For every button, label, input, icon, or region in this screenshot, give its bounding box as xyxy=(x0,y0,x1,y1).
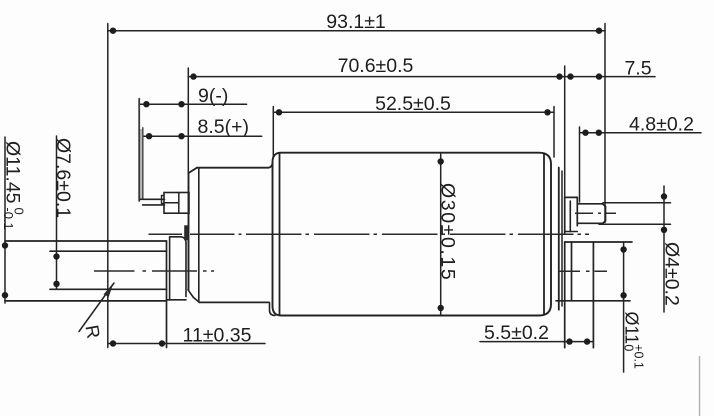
centerline main axis xyxy=(149,233,590,235)
svg-text:Ø7.6±0.1: Ø7.6±0.1 xyxy=(52,138,74,218)
wire dimension line 5.5 xyxy=(480,341,593,343)
terminal block horizontal divider xyxy=(164,202,179,204)
outlet tube bottom xyxy=(577,222,602,224)
dot 93.1 left xyxy=(110,28,116,34)
wire inlet bore top line xyxy=(50,250,167,252)
wire extension line right 93.1 xyxy=(604,24,606,223)
centerline port axis xyxy=(559,270,607,272)
svg-text:93.1±1: 93.1±1 xyxy=(326,11,386,33)
outlet base block bottom xyxy=(565,231,578,233)
inlet neck top edge xyxy=(170,237,186,243)
pump body right cover inner line xyxy=(561,171,563,306)
dot 8.5 right xyxy=(178,133,184,139)
wire dimension line 9(-) xyxy=(139,103,247,105)
wire dimension line 11±0.35 xyxy=(108,343,265,345)
wire inlet tube end face and 11 extension xyxy=(166,241,168,348)
dot 7.5 right xyxy=(596,73,602,79)
pump body left seam line xyxy=(279,154,281,315)
wire port right edge and 5.5 extension xyxy=(592,242,594,348)
terminal block outline xyxy=(164,193,189,214)
inlet neck right edge xyxy=(185,243,187,297)
svg-text:R: R xyxy=(81,323,104,340)
wire port bottom edge and extension xyxy=(556,300,630,302)
dot d30 top xyxy=(438,158,444,164)
wire extension line 4.8 left xyxy=(579,127,581,202)
terminal block small tab xyxy=(162,196,165,204)
faint page edge line right xyxy=(699,356,701,416)
svg-text:4.8±0.2: 4.8±0.2 xyxy=(629,113,694,135)
svg-text:Ø11.450-0.1: Ø11.450-0.1 xyxy=(1,141,27,230)
wire extension inlet tube top to dim xyxy=(5,240,167,242)
outlet base block right edge xyxy=(576,197,578,225)
end cap left edge xyxy=(188,173,190,290)
svg-text:52.5±0.5: 52.5±0.5 xyxy=(375,93,451,115)
dot 9 right xyxy=(178,101,184,107)
dot d4 bottom xyxy=(661,227,667,233)
wire dimension line 52.5 xyxy=(273,111,554,113)
centerline inlet axis xyxy=(94,270,214,272)
dot 5.5 right xyxy=(584,338,590,344)
wire inlet bore bottom line xyxy=(50,288,167,290)
wire vertical dimension line diameter 30 xyxy=(440,154,442,316)
wire extension line 70.6 left xyxy=(187,68,189,173)
svg-text:70.6±0.5: 70.6±0.5 xyxy=(338,55,414,77)
outlet base block left edge xyxy=(564,197,566,233)
dot d11.45 top xyxy=(2,242,8,248)
inlet neck right of tube xyxy=(169,237,171,300)
svg-text:8.5(+): 8.5(+) xyxy=(198,116,249,138)
wire port inner left wall xyxy=(571,242,573,301)
dot 52.5 right xyxy=(544,109,550,115)
dot d11 port bottom xyxy=(620,292,626,298)
wire vertical dimension line diameter 7.6 xyxy=(56,136,58,289)
outlet tube tip xyxy=(603,206,606,223)
svg-text:11±0.35: 11±0.35 xyxy=(183,324,252,346)
svg-text:7.5: 7.5 xyxy=(624,57,651,79)
svg-text:Ø30±0.15: Ø30±0.15 xyxy=(436,183,458,281)
end cap inner vertical xyxy=(198,169,200,303)
bracket vertical left edge xyxy=(138,99,140,201)
dot d11 port top xyxy=(620,246,626,252)
wire port top edge and extension xyxy=(565,241,632,243)
dot 9 left xyxy=(143,101,149,107)
bracket arm to terminal xyxy=(140,199,165,205)
wire outlet tube top extension to diameter4 xyxy=(603,202,671,204)
wire extension line 52.5 right xyxy=(553,107,555,158)
dot 4.8 left xyxy=(582,130,588,136)
inlet neck bottom edge xyxy=(167,299,187,301)
wire extension inlet tube bottom to dim xyxy=(5,300,167,302)
R leader line xyxy=(79,283,114,332)
dot 93.1 right xyxy=(596,28,602,34)
pump body right seam line xyxy=(543,154,545,315)
dot 4.8 right xyxy=(596,130,602,136)
svg-text:Ø11+0.10: Ø11+0.10 xyxy=(622,312,646,369)
dot d7.6 top xyxy=(53,253,59,259)
end cap bottom edge xyxy=(199,301,268,303)
end cap to body bottom step xyxy=(270,302,276,315)
outlet base block inner line xyxy=(569,201,571,232)
dot 5.5 left xyxy=(566,338,572,344)
bracket fill shading xyxy=(139,129,143,200)
wire vertical dimension line diameter 4 xyxy=(663,186,665,312)
svg-text:9(-): 9(-) xyxy=(198,85,228,107)
dot 52.5 left xyxy=(276,109,282,115)
terminal block vertical divider xyxy=(178,193,180,214)
wire vertical dimension line diameter 11 outlet xyxy=(623,242,625,372)
pump body right cover plate xyxy=(558,168,560,310)
wire dimension line 93.1 xyxy=(108,30,605,32)
wire port left edge and 5.5 extension xyxy=(564,242,566,348)
dot 70.6 right xyxy=(556,73,562,79)
dot 8.5 left xyxy=(146,133,152,139)
bracket vertical right edge xyxy=(142,128,144,200)
lower terminal pin dark mark xyxy=(184,225,189,240)
wire vertical dimension line diameter 11.45 xyxy=(4,137,6,303)
wire outlet tube bottom extension to diameter4 xyxy=(599,223,671,225)
dot 11 right xyxy=(159,340,165,346)
wire extension line left 93.1 xyxy=(107,24,109,348)
arrow dots group xyxy=(2,28,667,347)
centerline outlet tube axis xyxy=(575,212,616,214)
dot d11.45 bottom xyxy=(2,292,8,298)
end cap top edge xyxy=(197,163,273,168)
wire dimension line 70.6 and 7.5 xyxy=(188,76,655,78)
dot 11 left xyxy=(110,340,116,346)
svg-text:5.5±0.2: 5.5±0.2 xyxy=(484,322,549,344)
outlet base block top xyxy=(565,196,578,198)
dot 70.6 left xyxy=(190,73,196,79)
dot d4 top xyxy=(661,193,667,199)
dot d30 bottom xyxy=(438,305,444,311)
dot d7.6 bottom xyxy=(53,281,59,287)
pump main body outline xyxy=(273,153,552,316)
wire dimension line 8.5(+) xyxy=(143,135,262,137)
svg-text:Ø4±0.2: Ø4±0.2 xyxy=(661,242,683,306)
wire extension line outlet base 7.5 xyxy=(564,66,566,197)
end cap bottom chamfer xyxy=(188,290,199,303)
wire dimension line 4.8 xyxy=(580,132,702,134)
outlet tube top xyxy=(577,204,605,207)
dot 7.5 left xyxy=(567,73,573,79)
R leader arrowhead xyxy=(104,283,114,297)
end cap top chamfer xyxy=(189,168,198,173)
wire extension line 52.5 left xyxy=(272,107,274,159)
